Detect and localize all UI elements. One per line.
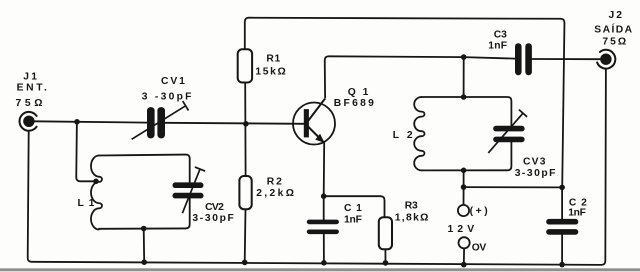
svg-text:75Ω: 75Ω xyxy=(16,98,44,109)
node rail-L1 xyxy=(141,259,147,265)
svg-text:(+): (+) xyxy=(470,206,489,217)
svg-text:OV: OV xyxy=(472,242,487,253)
resistor R2 xyxy=(239,176,251,209)
svg-text:3-30pF: 3-30pF xyxy=(192,213,234,224)
svg-text:R3: R3 xyxy=(405,201,419,212)
node emitter xyxy=(321,193,327,199)
wire tank bottom to supply junction xyxy=(463,170,465,187)
svg-text:R1: R1 xyxy=(266,54,280,65)
capacitor C2 xyxy=(546,219,578,235)
svg-text:J2: J2 xyxy=(609,10,623,21)
wire 0V to rail xyxy=(463,248,465,265)
svg-text:SAÍDA: SAÍDA xyxy=(594,22,632,35)
wire R2 bottom to rail xyxy=(244,209,247,262)
resistor R3 xyxy=(379,217,392,249)
wire emitter to R3 xyxy=(324,196,385,217)
node base-bias xyxy=(243,121,249,127)
wire emitter to C1 xyxy=(323,196,325,219)
svg-text:3-30pF: 3-30pF xyxy=(515,168,556,179)
node L2 top xyxy=(461,94,467,100)
wire tap branch vertical xyxy=(76,122,94,182)
svg-text:CV1: CV1 xyxy=(161,76,186,87)
inductor L2 xyxy=(414,97,424,170)
svg-text:75Ω: 75Ω xyxy=(602,36,626,47)
wire collector vertical and output run xyxy=(325,56,515,97)
node L2 bottom xyxy=(461,168,467,174)
node rail-C2 xyxy=(559,262,565,268)
wire main input J1 to CV1 xyxy=(35,121,148,122)
inductor L1 xyxy=(91,156,102,230)
svg-text:12V: 12V xyxy=(448,224,475,235)
wire L2 tank top and right upper xyxy=(422,97,512,126)
wire L1 tank right lower and bottom xyxy=(99,198,190,228)
svg-text:2,2kΩ: 2,2kΩ xyxy=(256,188,294,199)
wire L1 tank to rail xyxy=(143,229,146,263)
terminal 0V xyxy=(459,237,470,248)
capacitor C3 xyxy=(515,43,532,75)
svg-text:15kΩ: 15kΩ xyxy=(255,67,286,78)
wire J1 ground down, bottom ground rail, J2 ground up xyxy=(28,69,606,265)
node supply right xyxy=(559,185,565,191)
svg-text:1nF: 1nF xyxy=(488,41,508,52)
capacitor CV1 xyxy=(132,101,189,139)
wire supply horizontal xyxy=(464,186,562,188)
scan edge band xyxy=(0,268,640,271)
node collector-feed xyxy=(461,54,467,60)
svg-text:3 -30pF: 3 -30pF xyxy=(142,91,192,102)
node L1 bottom xyxy=(141,226,147,232)
node supply left xyxy=(461,184,467,190)
transistor Q1 xyxy=(293,99,335,145)
connector J1 xyxy=(20,112,37,131)
svg-text:CV3: CV3 xyxy=(523,157,546,168)
svg-text:BF689: BF689 xyxy=(334,98,375,109)
svg-text:C3: C3 xyxy=(494,30,508,41)
wire C2 top xyxy=(561,187,563,219)
wire supply to plus terminal xyxy=(463,187,465,205)
node rail-0V xyxy=(461,262,467,268)
capacitor CV2 xyxy=(173,167,206,213)
node L1 tap xyxy=(93,179,99,185)
resistor R1 xyxy=(238,49,252,82)
svg-text:R2: R2 xyxy=(267,177,283,188)
connector J2 xyxy=(597,50,615,69)
svg-text:J1: J1 xyxy=(23,71,37,82)
wire emitter vertical xyxy=(323,143,326,197)
svg-text:1nF: 1nF xyxy=(344,214,363,225)
wire C3 to J2 xyxy=(532,58,600,60)
wire R1 bottom to R2 top xyxy=(244,83,246,177)
wire C2 bottom to rail xyxy=(561,235,563,265)
capacitor CV3 xyxy=(488,110,527,153)
node main-tap xyxy=(74,119,80,125)
wire top rail with R1 feed and +12V drop xyxy=(245,18,565,188)
capacitor C1 xyxy=(307,220,339,235)
wire L2 tank right lower and bottom xyxy=(422,142,512,170)
wire L1 tank top and right upper xyxy=(99,155,190,183)
node junction dots xyxy=(74,54,565,267)
wire C1 to rail xyxy=(323,234,325,263)
svg-text:1,8kΩ: 1,8kΩ xyxy=(395,213,429,224)
node rail-R2 xyxy=(242,260,248,266)
wire R3 to rail xyxy=(384,249,386,263)
svg-text:1nF: 1nF xyxy=(568,208,586,219)
svg-text:CV2: CV2 xyxy=(205,202,224,213)
wire CV1 to Q1 base xyxy=(165,123,304,124)
terminal plus xyxy=(458,205,469,216)
node rail-C1 xyxy=(321,260,327,266)
wire tank feed vertical xyxy=(463,57,465,97)
node rail-R3 xyxy=(383,260,389,266)
